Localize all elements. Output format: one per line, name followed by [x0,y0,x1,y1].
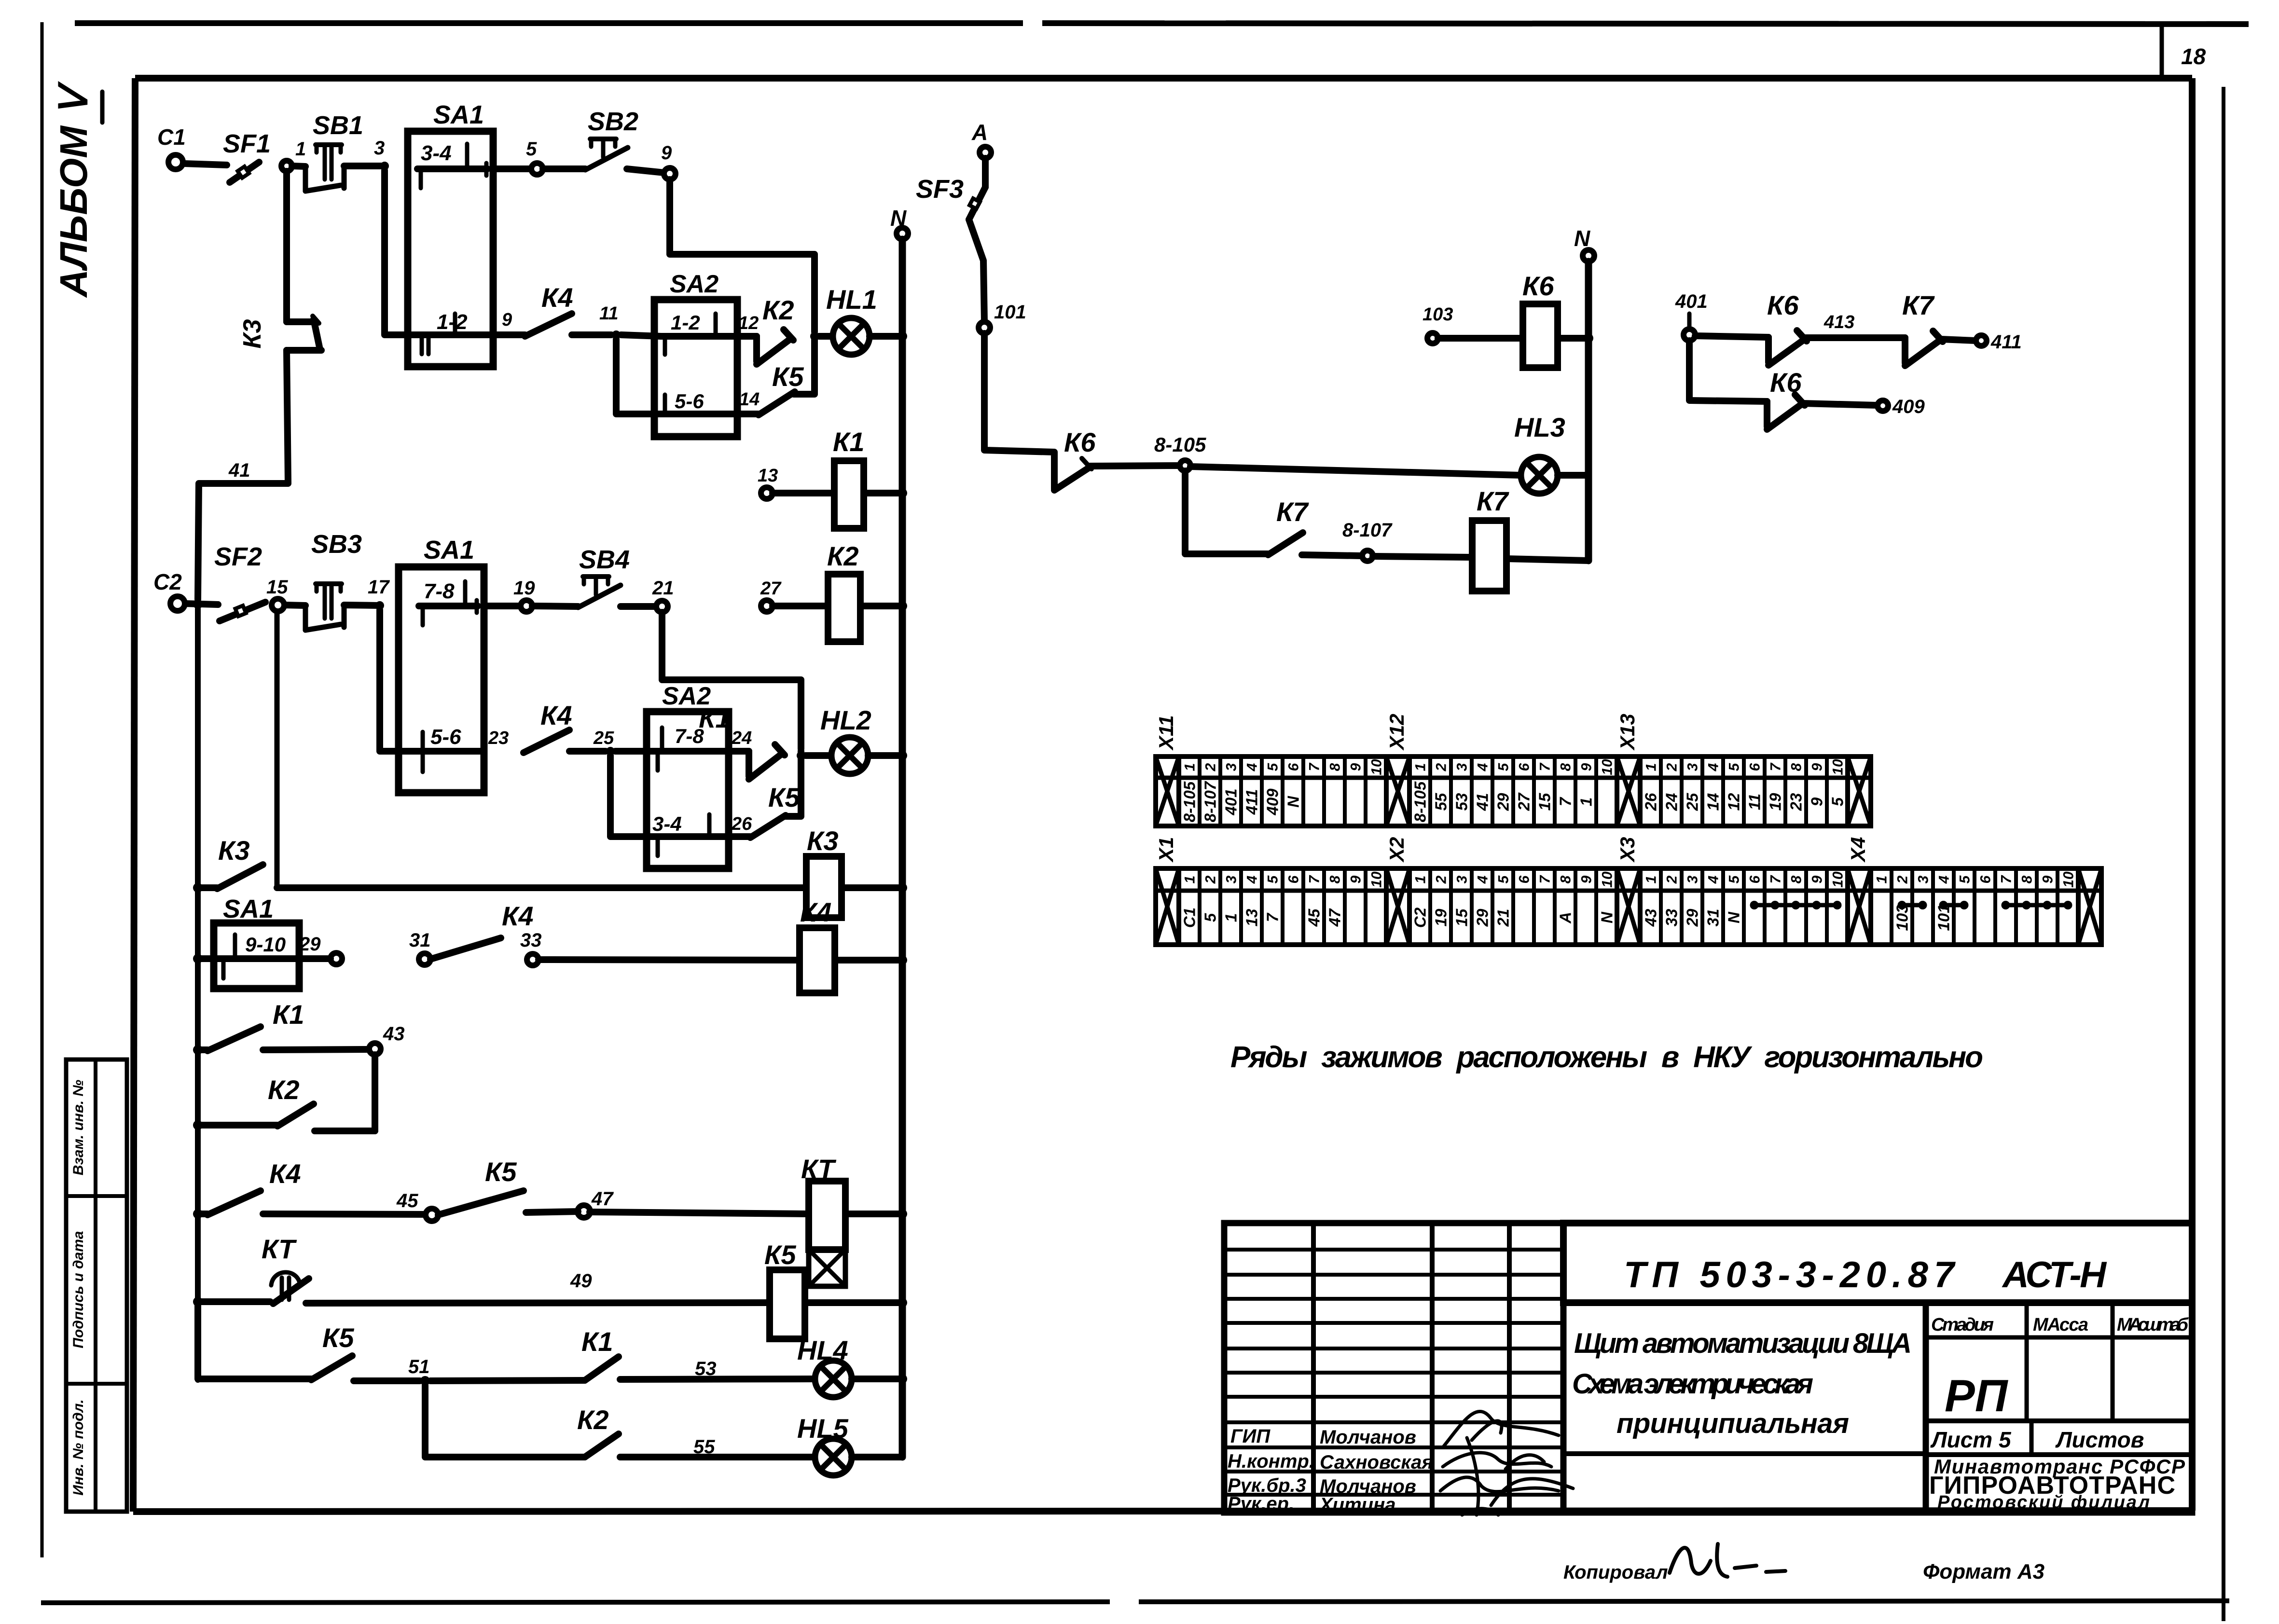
svg-text:ГИП: ГИП [1230,1426,1271,1447]
svg-text:SA1: SA1 [424,536,474,564]
wire K5 up to HL2 junction [785,751,801,816]
svg-text:4: 4 [1475,763,1491,771]
wire K4 to node 11 [572,331,611,338]
contact K4 (row1) [525,282,573,336]
node 25 [593,728,615,756]
junction HL1 left [810,332,819,341]
svg-text:SA1: SA1 [433,100,484,129]
wire HL5 to N bus corner [852,1385,902,1457]
junction N2 K6coil [1584,333,1593,343]
wire node15 drop joins K3 row [275,611,280,888]
svg-text:7: 7 [1998,875,2014,883]
svg-text:4: 4 [1705,875,1721,884]
svg-text:МАсштаб: МАсштаб [2117,1315,2189,1335]
contact K4 (row2) [524,700,572,753]
svg-text:14: 14 [739,389,760,410]
svg-text:SA1: SA1 [223,895,274,923]
wire K4 to node 25 [569,748,606,755]
svg-text:Схема электрическая: Схема электрическая [1572,1368,1813,1400]
terminal A [971,120,991,158]
wire SB2 to node 9 [627,169,664,173]
junction left bus SA1 row [193,954,203,963]
svg-text:9: 9 [661,142,672,164]
node 29 [299,934,342,964]
svg-text:К5: К5 [764,1239,796,1270]
svg-text:9: 9 [1578,875,1594,883]
wire pin12 to K2 contact [731,333,757,340]
wire 41 corner [198,350,288,599]
wire K1 coil to N [864,490,899,496]
svg-text:7: 7 [1263,912,1281,922]
terminal block X1 [1155,837,1386,945]
svg-text:10: 10 [1368,759,1384,775]
svg-text:29: 29 [1473,908,1491,927]
svg-text:SF2: SF2 [214,542,262,571]
contact K1 (row8) [581,1326,619,1380]
svg-text:К3: К3 [238,319,266,348]
svg-text:HL2: HL2 [820,705,871,735]
wire K1 to node 43 [263,1049,369,1050]
contact K7 (feeder) [1268,496,1309,555]
svg-text:N: N [1598,911,1616,923]
node 8-105 [1154,433,1206,471]
node 3 [374,138,389,170]
junction N K1coil [898,488,907,498]
svg-text:5: 5 [1495,875,1511,883]
svg-text:Формат А3: Формат А3 [1923,1560,2044,1583]
svg-text:X11: X11 [1155,715,1177,751]
svg-text:11: 11 [1745,794,1763,810]
wire left bus bottom corner [198,1302,311,1379]
svg-text:18: 18 [2181,44,2206,69]
svg-text:9: 9 [1808,797,1825,806]
svg-text:26: 26 [1642,793,1659,811]
svg-text:4: 4 [1244,875,1260,884]
node 15 [266,577,288,611]
svg-text:1: 1 [1874,876,1890,884]
contact K5 (row2) [750,782,800,838]
svg-text:3: 3 [1685,875,1700,883]
pushbutton SB4 [578,545,630,607]
svg-text:2: 2 [1894,875,1910,884]
svg-text:К5: К5 [322,1322,354,1353]
svg-text:401: 401 [1675,291,1708,312]
svg-text:45: 45 [396,1190,418,1211]
svg-text:3-4: 3-4 [652,812,682,835]
svg-text:13: 13 [1243,909,1260,927]
svg-text:МАсса: МАсса [2033,1315,2088,1335]
jumper X4 cells 7-10 [2002,901,2072,909]
svg-text:8: 8 [1558,875,1574,883]
wire node11 bypass to SA2 5-6 [616,339,661,414]
wire node21 down-right to HL2 junction [662,612,801,749]
net N (left bus) [890,206,908,1457]
svg-text:К2: К2 [827,541,859,571]
svg-text:7-8: 7-8 [424,579,455,603]
svg-text:6: 6 [1977,875,1993,883]
svg-text:24: 24 [731,728,752,748]
svg-text:1: 1 [295,138,306,160]
contact K5 (row6) [438,1156,524,1215]
svg-text:Сахновская: Сахновская [1320,1452,1433,1473]
svg-text:1: 1 [1412,763,1428,771]
wire SA2(3-4) to K5 contact [721,833,750,840]
node 101 [979,302,1026,333]
wire SA1(7-8) to node 19 [484,603,521,609]
svg-text:101: 101 [994,302,1026,323]
svg-text:5: 5 [1828,797,1846,806]
svg-text:10: 10 [1368,871,1384,888]
junction left bus C2 row [193,599,203,609]
relay coil K5 [764,1239,805,1339]
svg-text:27: 27 [760,578,782,599]
terminal 409 [1878,396,1925,417]
svg-text:C1: C1 [157,124,186,150]
svg-text:Стадия: Стадия [1931,1315,1994,1335]
svg-text:10: 10 [2060,871,2076,888]
svg-text:10: 10 [1599,759,1615,775]
wire node5 to SB2 [543,165,585,172]
lamp HL5 [797,1413,852,1475]
svg-text:23: 23 [1787,793,1805,812]
terminal C1 [157,124,186,169]
wire node1 to SB1 [292,166,305,166]
wire K5 up to HL1 junction [794,336,815,394]
circuit breaker SF2 [214,542,265,621]
svg-text:Копировал: Копировал [1563,1562,1668,1583]
svg-text:8-105: 8-105 [1180,781,1198,822]
relay coil K6 [1522,271,1558,368]
circuit breaker SF3 [916,175,985,220]
svg-text:47: 47 [591,1188,614,1210]
svg-text:Листов: Листов [2055,1427,2144,1452]
jumper X4 cells 2-3 [1898,901,1927,909]
wire node101 down to K6 contact [984,333,1054,479]
svg-text:6: 6 [1747,763,1763,771]
wire node25 bypass to SA2 3-4 [610,756,654,837]
svg-text:АСТ-Н: АСТ-Н [2002,1254,2107,1295]
node 51 [408,1356,430,1386]
svg-text:9: 9 [2040,875,2056,883]
terminal block X3 [1616,837,1848,945]
cam switch SA2 second (contacts 7-8 / 3-4) [647,682,729,868]
wire C1 to SF1 [183,164,227,165]
svg-text:7: 7 [1768,762,1783,771]
svg-text:1-2: 1-2 [671,311,700,334]
svg-text:41: 41 [1473,793,1491,812]
svg-text:3: 3 [1223,763,1239,771]
svg-text:1: 1 [1222,913,1240,922]
svg-text:КТ: КТ [262,1234,297,1264]
wire K7 aux to 411 [1941,339,1975,341]
svg-text:8: 8 [1788,875,1804,883]
svg-text:К1: К1 [581,1326,613,1357]
junction left bus K2 row [193,1120,203,1130]
svg-text:Взам. инв. №: Взам. инв. № [70,1080,86,1175]
wire junction to HL2 [805,752,831,759]
svg-text:1: 1 [1412,876,1428,884]
svg-text:33: 33 [1662,909,1680,927]
relay coil K2 [827,541,860,642]
svg-text:Инв. № подл.: Инв. № подл. [70,1399,86,1495]
svg-text:15: 15 [1452,908,1470,926]
svg-text:X12: X12 [1385,714,1408,751]
svg-text:12: 12 [1725,793,1742,811]
svg-text:7: 7 [1768,875,1783,883]
svg-text:SB3: SB3 [311,530,362,559]
svg-text:411: 411 [1990,331,2022,353]
svg-text:К4: К4 [269,1158,301,1189]
svg-text:АЛЬБОМ Ⅴ: АЛЬБОМ Ⅴ [52,81,95,298]
svg-text:15: 15 [1535,793,1553,811]
svg-text:5: 5 [526,138,537,160]
wire node51 down to K2 row [425,1386,585,1457]
svg-text:7: 7 [1306,875,1322,883]
terminal block X11 [1155,715,1386,826]
wire node25 into SA2 second [615,748,654,755]
svg-text:15: 15 [266,577,288,598]
node 43 [369,1023,405,1055]
junction N K2coil [898,601,907,611]
contact K6 NC (aux upper) [1767,290,1807,365]
svg-text:SB4: SB4 [579,545,630,574]
svg-text:409: 409 [1892,396,1925,417]
terminal block X13 [1616,714,1848,826]
cam switch SA2 (contacts 1-2 / 5-6) [654,270,737,437]
svg-text:К4: К4 [800,897,832,927]
net 55 wire to HL5 [620,1436,815,1458]
wire 8-105 branch down to K7 contact [1185,471,1268,554]
wire K6 coil to N2 [1558,335,1588,342]
svg-text:103: 103 [1423,304,1453,325]
svg-text:3: 3 [1454,763,1470,771]
svg-text:9: 9 [1578,763,1594,771]
cam switch SA1 second (contacts 7-8 / 5-6) [399,536,484,793]
svg-text:8-105: 8-105 [1411,781,1429,822]
wire C2 to SF2 [185,604,218,605]
svg-text:А: А [971,120,988,145]
node 8-107 [1342,520,1393,561]
svg-text:31: 31 [409,930,431,951]
svg-text:9: 9 [502,310,512,330]
svg-text:45: 45 [1305,908,1323,927]
svg-text:43: 43 [1642,909,1659,927]
contact K5 (row8) [311,1322,354,1380]
wire K4 to node 45 [263,1214,426,1214]
node 5 [526,138,543,175]
wire 13 to K1 coil [773,490,834,496]
cam switch SA1 (contacts 3-4 / 1-2) [408,100,493,367]
node 27 [760,578,782,612]
svg-text:21: 21 [652,578,674,599]
svg-text:2: 2 [1202,763,1218,771]
svg-text:23: 23 [488,728,509,748]
svg-text:К5: К5 [768,782,800,812]
svg-text:26: 26 [731,814,752,834]
wire pin24 to K1 contact [721,748,749,755]
svg-text:X13: X13 [1616,714,1639,751]
wire 51 to K1 contact [430,1380,585,1381]
svg-text:К1: К1 [273,999,304,1030]
svg-text:5: 5 [1495,762,1511,771]
svg-text:31: 31 [1704,909,1722,927]
svg-text:12: 12 [738,313,759,333]
contact K1 (row4) [198,999,304,1051]
wire 103 to K6 coil [1438,335,1523,342]
svg-text:Ряды зажимов расположены в: Ряды зажимов расположены в НКУ горизонта… [1230,1041,1983,1074]
node 19 [513,578,535,612]
svg-text:5-6: 5-6 [430,725,461,749]
net 413 wire [1805,312,1905,338]
terminal block X12 [1385,714,1617,826]
svg-text:К6: К6 [1770,367,1802,398]
svg-text:Молчанов: Молчанов [1320,1427,1416,1448]
junction left bus KT row [193,1297,203,1307]
svg-text:19: 19 [513,578,535,599]
wire node11 into SA2 [621,335,661,336]
svg-text:К3: К3 [807,826,839,856]
pushbutton SB2 [585,107,638,170]
wire A down [982,158,989,187]
svg-text:6: 6 [1747,875,1763,883]
wire SA1 to 29 [293,955,331,962]
svg-text:14: 14 [1704,793,1722,811]
wire HL1 to N bus [870,333,899,340]
junction N HL4 [898,1374,907,1384]
svg-text:9: 9 [1348,875,1364,883]
svg-text:9: 9 [1809,875,1825,883]
svg-text:5: 5 [1201,913,1219,922]
node 47 [578,1188,614,1218]
wire K2 coil to N [860,603,899,609]
svg-text:Хитина: Хитина [1319,1494,1396,1515]
svg-text:4: 4 [1475,875,1491,884]
relay coil K3 [806,826,842,918]
svg-text:К1: К1 [833,427,865,457]
svg-text:2: 2 [1664,875,1680,884]
contact K6 NC (aux lower) [1767,367,1805,429]
node 21 [652,578,674,612]
junction N row1 [898,331,907,341]
svg-text:5-6: 5-6 [675,390,704,413]
svg-text:19: 19 [1766,793,1784,811]
jumper X3 cells 6-10 [1750,901,1842,909]
node 9 [661,142,676,179]
node 401 [1675,291,1708,341]
node 17 [368,577,390,610]
node 45 [396,1190,438,1221]
terminal C2 [153,569,185,611]
svg-text:413: 413 [1823,312,1854,332]
lamp HL3 [1514,412,1565,494]
svg-text:8-107: 8-107 [1201,781,1219,822]
wire KT coil to N [845,1211,899,1217]
wire 401 to K6 aux contact [1695,336,1768,337]
svg-text:РП: РП [1945,1370,2009,1421]
svg-text:SB2: SB2 [588,107,638,136]
svg-text:6: 6 [1285,875,1301,883]
junction N KTcoil [898,1209,907,1219]
svg-text:4: 4 [1705,763,1721,771]
svg-text:55: 55 [1432,793,1450,811]
wire K7 coil to N2 [1506,559,1588,561]
svg-text:43: 43 [383,1023,405,1045]
lamp HL1 [826,284,877,355]
svg-text:4: 4 [1244,763,1260,771]
wire 8-107 to K7 coil [1373,556,1472,557]
svg-text:21: 21 [1494,909,1512,927]
svg-text:X1: X1 [1155,837,1177,863]
svg-text:3-4: 3-4 [421,141,452,165]
wire K3 row to K3 coil [277,884,806,891]
circuit breaker SF1 [223,129,271,182]
svg-text:8-105: 8-105 [1154,433,1206,456]
svg-text:Н.контр.: Н.контр. [1228,1451,1314,1472]
svg-text:2: 2 [1433,763,1449,771]
svg-text:К6: К6 [1522,271,1554,301]
svg-text:7: 7 [1537,762,1553,771]
contact K4 (row3) [430,901,534,959]
junction left bus K1 row [193,1045,203,1055]
svg-text:29: 29 [1683,908,1701,927]
node 103 [1423,304,1453,344]
svg-text:2: 2 [1202,875,1218,884]
wire K7 to node 8-107 [1302,555,1362,556]
svg-text:10: 10 [1830,759,1846,775]
wire 27 to K2 coil [773,603,828,609]
svg-text:SF1: SF1 [223,129,271,158]
svg-text:9: 9 [1809,763,1825,771]
svg-text:3: 3 [1223,875,1239,883]
svg-text:1: 1 [1643,876,1659,884]
svg-text:4: 4 [1936,875,1952,884]
svg-text:Щит автоматизации 8ЩА: Щит автоматизации 8ЩА [1574,1328,1912,1359]
contact K4 (row6) [198,1158,301,1215]
terminal block X2 [1385,837,1617,945]
svg-text:HL3: HL3 [1514,412,1565,442]
svg-text:8: 8 [1327,875,1343,883]
svg-text:3: 3 [1685,763,1700,771]
wire K5 to node 47 [526,1211,578,1212]
svg-text:8: 8 [1327,763,1343,771]
wire 33 to K4 coil [539,960,800,960]
svg-text:С1: С1 [1180,908,1198,928]
contact K5 (row1) [759,361,804,415]
svg-text:47: 47 [1326,908,1343,927]
wire node19 to SB4 [532,606,578,606]
svg-text:9-10: 9-10 [245,933,286,956]
svg-text:7: 7 [1306,762,1322,771]
svg-text:25: 25 [593,728,614,748]
wire SA1(3-4) to node 5 [493,165,531,172]
svg-text:HL1: HL1 [826,284,877,315]
pushbutton SB1 [305,111,363,191]
svg-text:HL5: HL5 [797,1413,849,1444]
wire HL4 to N bus [852,1376,899,1382]
svg-text:411: 411 [1243,789,1260,815]
svg-text:3: 3 [374,138,385,159]
wire K4 coil to N [835,957,899,963]
svg-text:К1: К1 [699,703,731,733]
contact K7 NC (aux) [1902,290,1943,366]
svg-text:51: 51 [408,1356,430,1377]
contact K3 NC (vertical, under node 1) [238,171,321,350]
svg-text:5: 5 [1265,762,1281,771]
junction N HL2 [898,751,907,760]
lamp HL2 [820,705,871,774]
svg-text:2: 2 [1664,763,1680,771]
wire SF3 to node 101 [969,220,984,322]
